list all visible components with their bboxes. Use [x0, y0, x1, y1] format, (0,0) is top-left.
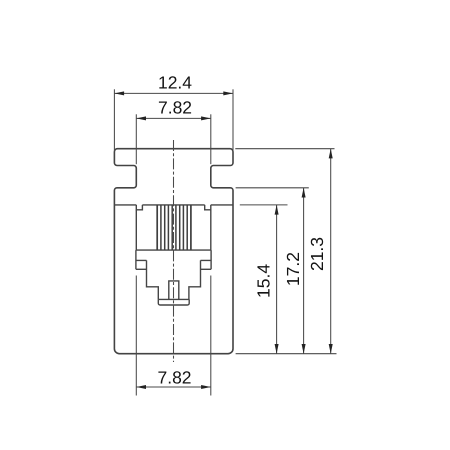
- opening left stepped profile: [136, 250, 158, 299]
- right shelf stub: [201, 268, 212, 270]
- dimension line 15.4: [276, 205, 278, 354]
- extension line 7.82 bottom left: [135, 276, 137, 396]
- recess right side: [210, 210, 212, 250]
- extension line 7.82 bottom right: [210, 276, 212, 396]
- extension line 12.4 left: [113, 89, 115, 151]
- arrowhead 15.4 bottom: [275, 344, 279, 354]
- face top line left segment: [114, 204, 136, 206]
- svg-text:7.82: 7.82: [158, 97, 192, 117]
- arrowhead 12.4 right: [223, 91, 233, 95]
- center line: [173, 140, 175, 362]
- extension line notch bottom right: [236, 187, 309, 189]
- right ear notch: [205, 205, 211, 210]
- extension line body bottom right: [236, 353, 337, 355]
- dimension line 7.82 bottom: [136, 386, 211, 388]
- arrowhead 7.82 bottom left: [136, 385, 146, 389]
- arrowhead 7.82 top left: [136, 116, 146, 120]
- arrowhead 7.82 top right: [201, 116, 211, 120]
- extension line cap top right: [235, 148, 334, 150]
- svg-text:12.4: 12.4: [158, 72, 192, 92]
- dimension line 17.2: [303, 188, 305, 354]
- extension line 12.4 right: [232, 89, 234, 152]
- svg-text:15.4: 15.4: [254, 264, 274, 298]
- left shelf stub: [136, 268, 147, 270]
- opening top edge: [136, 249, 211, 251]
- dimension line 21.3: [330, 149, 332, 354]
- svg-text:7.82: 7.82: [157, 367, 191, 387]
- extension line 7.82 top left: [135, 114, 137, 164]
- jack body outline: [114, 149, 233, 354]
- arrowhead 21.3 top: [329, 149, 333, 159]
- arrowhead 17.2 top: [302, 188, 306, 198]
- arrowhead 21.3 bottom: [329, 344, 333, 354]
- arrowhead 12.4 left: [114, 91, 124, 95]
- foot tray: [158, 299, 189, 305]
- arrowhead 7.82 bottom right: [201, 385, 211, 389]
- dimension line 12.4: [114, 92, 233, 94]
- left ear notch: [136, 205, 142, 210]
- svg-text:21.3: 21.3: [307, 237, 327, 271]
- dimension line 7.82 top: [136, 117, 211, 119]
- face top line middle segment: [142, 204, 204, 206]
- arrowhead 15.4 top: [275, 205, 279, 215]
- latch tab: [169, 281, 179, 300]
- opening bottom edge: [158, 298, 189, 300]
- opening right stepped profile: [189, 250, 211, 299]
- contact blades hatch: [157, 205, 191, 250]
- recess left side: [135, 210, 137, 250]
- face top line right segment: [211, 204, 233, 206]
- extension line 7.82 top right: [210, 114, 212, 164]
- svg-text:17.2: 17.2: [283, 252, 303, 286]
- arrowhead 17.2 bottom: [302, 344, 306, 354]
- extension line face right: [240, 204, 288, 206]
